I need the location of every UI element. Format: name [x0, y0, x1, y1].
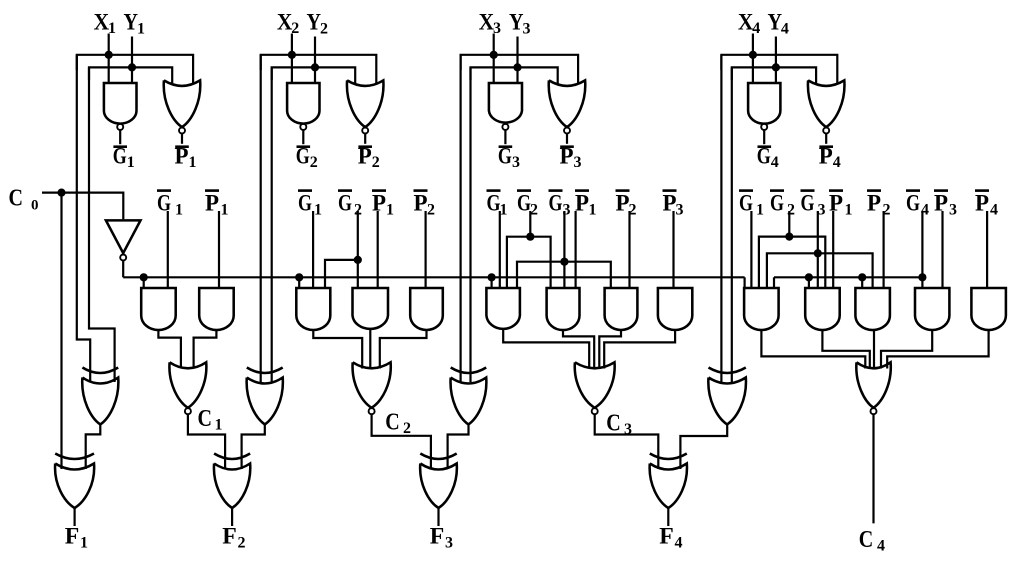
svg-text:F: F	[65, 524, 80, 550]
label Gbar2 output	[297, 145, 311, 148]
nand gate G4	[748, 83, 780, 124]
label Gbar1 stage4 input	[739, 189, 753, 192]
stage1 AND gate B	[199, 288, 234, 330]
wire stage4 AND E output	[887, 330, 988, 369]
wire X3 input vertical	[493, 34, 495, 85]
node Gbar3 stage3 junction	[560, 258, 568, 266]
svg-text:2: 2	[427, 202, 435, 219]
label Pbar4 output	[819, 145, 833, 148]
wire Pbar2 stage2	[425, 211, 427, 288]
svg-text:P: P	[575, 190, 589, 216]
wire Y2 input vertical	[314, 37, 316, 85]
wire Pbar2 stage3	[628, 211, 630, 288]
label Gbar2 stage2 input	[338, 189, 352, 192]
stage4 AND gate D	[915, 288, 949, 330]
wire Y2 long vertical	[271, 67, 273, 382]
wire stage3 AND B output	[563, 330, 594, 369]
wire X4 input vertical	[752, 34, 754, 85]
xor gate P3	[451, 368, 487, 374]
stage4 AND gate C	[855, 288, 890, 330]
svg-text:3: 3	[523, 21, 531, 38]
label Pbar1 stage1 input	[205, 189, 219, 192]
wire Gbar3 stage3 step	[517, 262, 611, 288]
wire Gbar2 stage4 step	[759, 237, 825, 288]
svg-text:G: G	[498, 143, 512, 169]
stage3 AND gate B	[547, 288, 580, 330]
wire Y1 left branch	[89, 67, 132, 80]
wire Y3 long vertical	[469, 67, 471, 382]
svg-text:1: 1	[386, 202, 394, 219]
wire Gbar4 net drop B	[861, 277, 863, 288]
wire Y1 input vertical	[131, 37, 133, 85]
wire P3 to F3	[448, 424, 469, 469]
stage2 AND gate C	[410, 288, 443, 330]
stage2 AND gate B	[353, 288, 389, 329]
svg-text:X: X	[277, 9, 293, 35]
label Gbar4 stage4 input	[906, 189, 920, 192]
label Gbar2 stage4 input	[770, 189, 784, 192]
svg-text:G: G	[801, 190, 815, 216]
xor gate P4	[709, 368, 746, 374]
label Gbar3 output	[499, 145, 513, 148]
svg-text:Y: Y	[307, 9, 322, 35]
node bus stage3 junction	[488, 273, 496, 281]
label Pbar2 stage2 input	[414, 189, 428, 192]
wire stage1 AND A output	[158, 330, 181, 369]
label Pbar3 output	[560, 145, 574, 148]
wire Y4 left branch	[732, 67, 776, 80]
wire stage3 AND A output	[503, 330, 589, 369]
stage3 AND gate A	[486, 288, 520, 329]
svg-text:P: P	[819, 143, 833, 169]
svg-text:Y: Y	[767, 9, 782, 35]
wire X1 to P-gate	[109, 55, 193, 85]
svg-text:3: 3	[676, 202, 684, 219]
stage3 AND gate D	[658, 288, 692, 330]
xor gate P1	[82, 368, 118, 374]
svg-text:X: X	[738, 9, 754, 35]
svg-text:2: 2	[310, 154, 318, 171]
node X4 junction	[749, 51, 757, 59]
wire X3 long vertical	[460, 55, 462, 382]
wire Pbar4 stage4	[986, 211, 988, 288]
svg-text:4: 4	[877, 537, 885, 554]
wire F1 output	[73, 508, 75, 526]
wire X1 input vertical	[108, 34, 110, 85]
wire Gbar4 stage4	[921, 211, 923, 288]
wire Pbar1 stage3	[574, 211, 576, 288]
wire C4 output	[872, 414, 874, 523]
node bus stage1 junction	[140, 273, 148, 281]
svg-text:3: 3	[445, 534, 453, 551]
stage4 AND gate E	[971, 288, 1006, 330]
wire P1 to F1	[86, 424, 101, 469]
wire stage4 AND A output	[761, 330, 865, 369]
label Gbar1 stage3 input	[487, 189, 501, 192]
label Pbar2 stage3 input	[616, 189, 630, 192]
wire F2 output	[231, 508, 233, 526]
svg-text:4: 4	[781, 21, 789, 38]
nor gate C4	[856, 362, 890, 408]
node Gbar4 net junction C	[918, 273, 926, 281]
wire stage4 AND D output	[881, 330, 932, 369]
wire Gbar2 stage3	[529, 211, 531, 237]
stage4 AND gate A	[744, 288, 779, 330]
svg-text:P: P	[867, 190, 881, 216]
svg-text:G: G	[549, 190, 563, 216]
nor gate P1	[164, 80, 201, 127]
wire stage4 AND B output	[822, 330, 869, 369]
svg-text:P: P	[358, 143, 372, 169]
wire Pbar1 stage4	[832, 211, 834, 288]
svg-text:P: P	[372, 190, 386, 216]
wire Pbar3 stage3	[672, 211, 674, 288]
label Pbar3 stage4 input	[934, 189, 948, 192]
wire X3 to P-gate	[494, 55, 578, 85]
nor gate C2	[353, 362, 391, 408]
svg-text:1: 1	[314, 202, 322, 219]
svg-text:X: X	[94, 9, 110, 35]
label Pbar1 stage2 input	[372, 189, 386, 192]
label Gbar3 stage4 input	[801, 189, 815, 192]
wire X2 left branch	[261, 55, 292, 70]
wire X4 left branch	[721, 55, 753, 70]
wire stage3 AND D output	[604, 330, 675, 369]
xor gate F4	[650, 454, 687, 460]
svg-text:4: 4	[771, 154, 779, 171]
svg-text:P: P	[616, 190, 630, 216]
wire Gbar4 distribution net	[774, 276, 922, 278]
wire bus drop stage1	[143, 277, 145, 288]
svg-text:C: C	[859, 527, 874, 553]
label Pbar2 stage4 input	[867, 189, 881, 192]
wire C3 to F4	[595, 414, 659, 469]
wire Gbar2 stage3 step	[507, 237, 551, 288]
svg-text:1: 1	[80, 534, 88, 551]
node Gbar3 stage4 junction	[814, 249, 822, 257]
wire Pbar3 stage4	[941, 211, 943, 288]
wire Pbar1 stage1	[218, 211, 220, 288]
svg-text:1: 1	[215, 416, 223, 433]
wire P2 to F2	[242, 424, 265, 469]
node Y1 junction	[128, 63, 136, 71]
svg-text:G: G	[113, 143, 127, 169]
nor gate P2	[347, 80, 384, 127]
wire bus drop stage3	[491, 277, 493, 288]
label Gbar1 stage1 input	[157, 189, 171, 192]
label Pbar2 output	[358, 145, 372, 148]
wire Gbar3 stage4	[817, 211, 819, 288]
label Gbar1 stage2 input	[298, 189, 312, 192]
nor gate P3	[549, 80, 586, 127]
wire X1 left branch	[77, 55, 109, 70]
svg-text:G: G	[298, 190, 312, 216]
wire stage3 AND C output	[599, 330, 621, 369]
svg-text:1: 1	[756, 202, 764, 219]
stage3 AND gate C	[605, 288, 638, 330]
wire Pbar2 stage4	[882, 211, 884, 288]
stage4 AND gate B	[805, 288, 840, 330]
wire Y4 long vertical	[731, 67, 733, 382]
label Pbar1 stage3 input	[575, 189, 589, 192]
svg-text:C: C	[385, 409, 400, 435]
svg-text:P: P	[934, 190, 948, 216]
svg-text:P: P	[560, 143, 574, 169]
xor gate F3	[420, 454, 456, 460]
wire carry bus	[123, 276, 744, 278]
nor gate P4	[808, 80, 845, 127]
wire Gbar2 stage4	[788, 211, 790, 237]
svg-text:1: 1	[137, 21, 145, 38]
label Pbar1 stage4 input	[829, 189, 843, 192]
wire stage2 AND A output	[313, 330, 362, 369]
svg-text:G: G	[296, 143, 310, 169]
wire X4 long vertical	[720, 55, 722, 382]
svg-text:1: 1	[127, 154, 135, 171]
nor gate C3	[575, 362, 615, 408]
xor gate F1	[55, 454, 94, 460]
svg-text:4: 4	[833, 154, 841, 171]
wire P4 to F4	[680, 424, 727, 469]
label Pbar3 stage3 input	[663, 189, 677, 192]
wire X3 left branch	[461, 55, 494, 70]
wire inverter output	[122, 261, 124, 278]
wire X1 long vertical	[77, 55, 90, 382]
wire Y3 input vertical	[516, 37, 518, 85]
wire Gbar2 stage2	[357, 211, 359, 288]
svg-text:P: P	[829, 190, 843, 216]
wire Y1 to P-gate	[132, 67, 172, 84]
node bus stage2 junction	[295, 273, 303, 281]
wire C0 to F1	[60, 193, 62, 469]
node X2 junction	[288, 51, 296, 59]
svg-text:1: 1	[221, 202, 229, 219]
wire Gbar1 stage2	[312, 211, 314, 288]
label Pbar1 output	[175, 145, 189, 148]
svg-text:G: G	[757, 143, 771, 169]
wire Y4 to P-gate	[776, 67, 816, 84]
node Gbar4 net junction B	[858, 273, 866, 281]
node Gbar2 stage4 junction	[785, 233, 793, 241]
wire Y4 input vertical	[775, 37, 777, 85]
node Y2 junction	[311, 63, 319, 71]
node Y4 junction	[772, 63, 780, 71]
wire Gbar3 stage4 step	[767, 253, 873, 288]
wire Y1 long vertical	[89, 67, 115, 382]
wire Gbar1 stage3	[499, 211, 501, 288]
stage2 AND gate A	[296, 288, 330, 330]
label Pbar4 stage4 input	[975, 189, 989, 192]
svg-text:4: 4	[990, 202, 998, 219]
svg-text:F: F	[430, 524, 445, 550]
wire Y2 to P-gate	[315, 67, 355, 84]
wire C1 to F2	[188, 414, 225, 469]
wire X2 long vertical	[260, 55, 262, 382]
wire Y3 left branch	[471, 67, 518, 80]
label Gbar2 stage3 input	[517, 189, 531, 192]
wire Gbar1 stage4	[750, 211, 752, 288]
nor gate C1	[169, 362, 206, 408]
wire Gbar4 net drop A	[808, 277, 810, 288]
svg-text:Y: Y	[509, 9, 524, 35]
label Gbar1 output	[113, 145, 127, 148]
node Gbar4 net junction A	[805, 273, 813, 281]
node X3 junction	[490, 51, 498, 59]
svg-text:P: P	[205, 190, 219, 216]
wire bus drop stage2	[298, 277, 300, 288]
node C0 junction	[57, 189, 65, 197]
nand gate G3	[489, 83, 522, 123]
svg-text:2: 2	[372, 154, 380, 171]
nand gate G1	[104, 83, 137, 124]
svg-text:P: P	[175, 143, 189, 169]
wire Pbar1 stage2	[377, 211, 379, 288]
wire F4 output	[667, 508, 669, 526]
xor gate F2	[214, 454, 250, 460]
svg-text:2: 2	[403, 420, 411, 437]
svg-text:C: C	[606, 410, 621, 436]
svg-text:Y: Y	[124, 9, 139, 35]
svg-text:3: 3	[512, 154, 520, 171]
wire C0 input	[42, 193, 123, 220]
node Y3 junction	[513, 63, 521, 71]
svg-text:X: X	[479, 9, 495, 35]
wire C2 to F3	[372, 414, 431, 469]
svg-text:3: 3	[949, 202, 957, 219]
inverter U1	[106, 220, 141, 253]
svg-text:3: 3	[574, 154, 582, 171]
svg-text:2: 2	[320, 21, 328, 38]
label Gbar4 output	[758, 145, 772, 148]
svg-text:F: F	[222, 524, 237, 550]
svg-text:C: C	[9, 186, 24, 212]
wire stage4 AND C output	[873, 330, 875, 369]
svg-text:G: G	[906, 190, 920, 216]
stage1 AND gate A	[141, 288, 176, 330]
wire X4 to P-gate	[753, 55, 837, 85]
node Gbar2 stage2 junction	[354, 256, 362, 264]
wire X2 to P-gate	[292, 55, 376, 85]
wire Gbar1 stage1	[167, 211, 169, 288]
svg-text:1: 1	[589, 202, 597, 219]
wire X2 input vertical	[291, 34, 293, 85]
wire stage1 AND B output	[194, 330, 217, 369]
label Gbar3 stage3 input	[549, 189, 563, 192]
svg-text:1: 1	[845, 202, 853, 219]
wire Gbar3 stage3	[563, 211, 565, 288]
svg-text:G: G	[770, 190, 784, 216]
svg-text:1: 1	[189, 154, 197, 171]
svg-text:G: G	[338, 190, 352, 216]
svg-text:4: 4	[675, 534, 683, 551]
node Gbar2 stage3 junction	[526, 233, 534, 241]
svg-text:G: G	[517, 190, 531, 216]
nand gate G2	[287, 83, 319, 124]
svg-text:0: 0	[31, 197, 39, 213]
svg-text:1: 1	[175, 202, 183, 219]
wire Gbar2 stage2 step	[325, 260, 358, 288]
wire Y3 to P-gate	[518, 67, 558, 84]
wire Y2 left branch	[272, 67, 315, 80]
svg-text:C: C	[198, 406, 213, 432]
node X1 junction	[105, 51, 113, 59]
wire stage2 AND C output	[380, 330, 427, 369]
xor gate P2	[247, 368, 283, 374]
wire F3 output	[437, 508, 439, 526]
svg-text:F: F	[659, 524, 674, 550]
svg-text:G: G	[487, 190, 501, 216]
wire stage2 AND B output	[369, 330, 371, 369]
svg-text:2: 2	[238, 534, 246, 551]
